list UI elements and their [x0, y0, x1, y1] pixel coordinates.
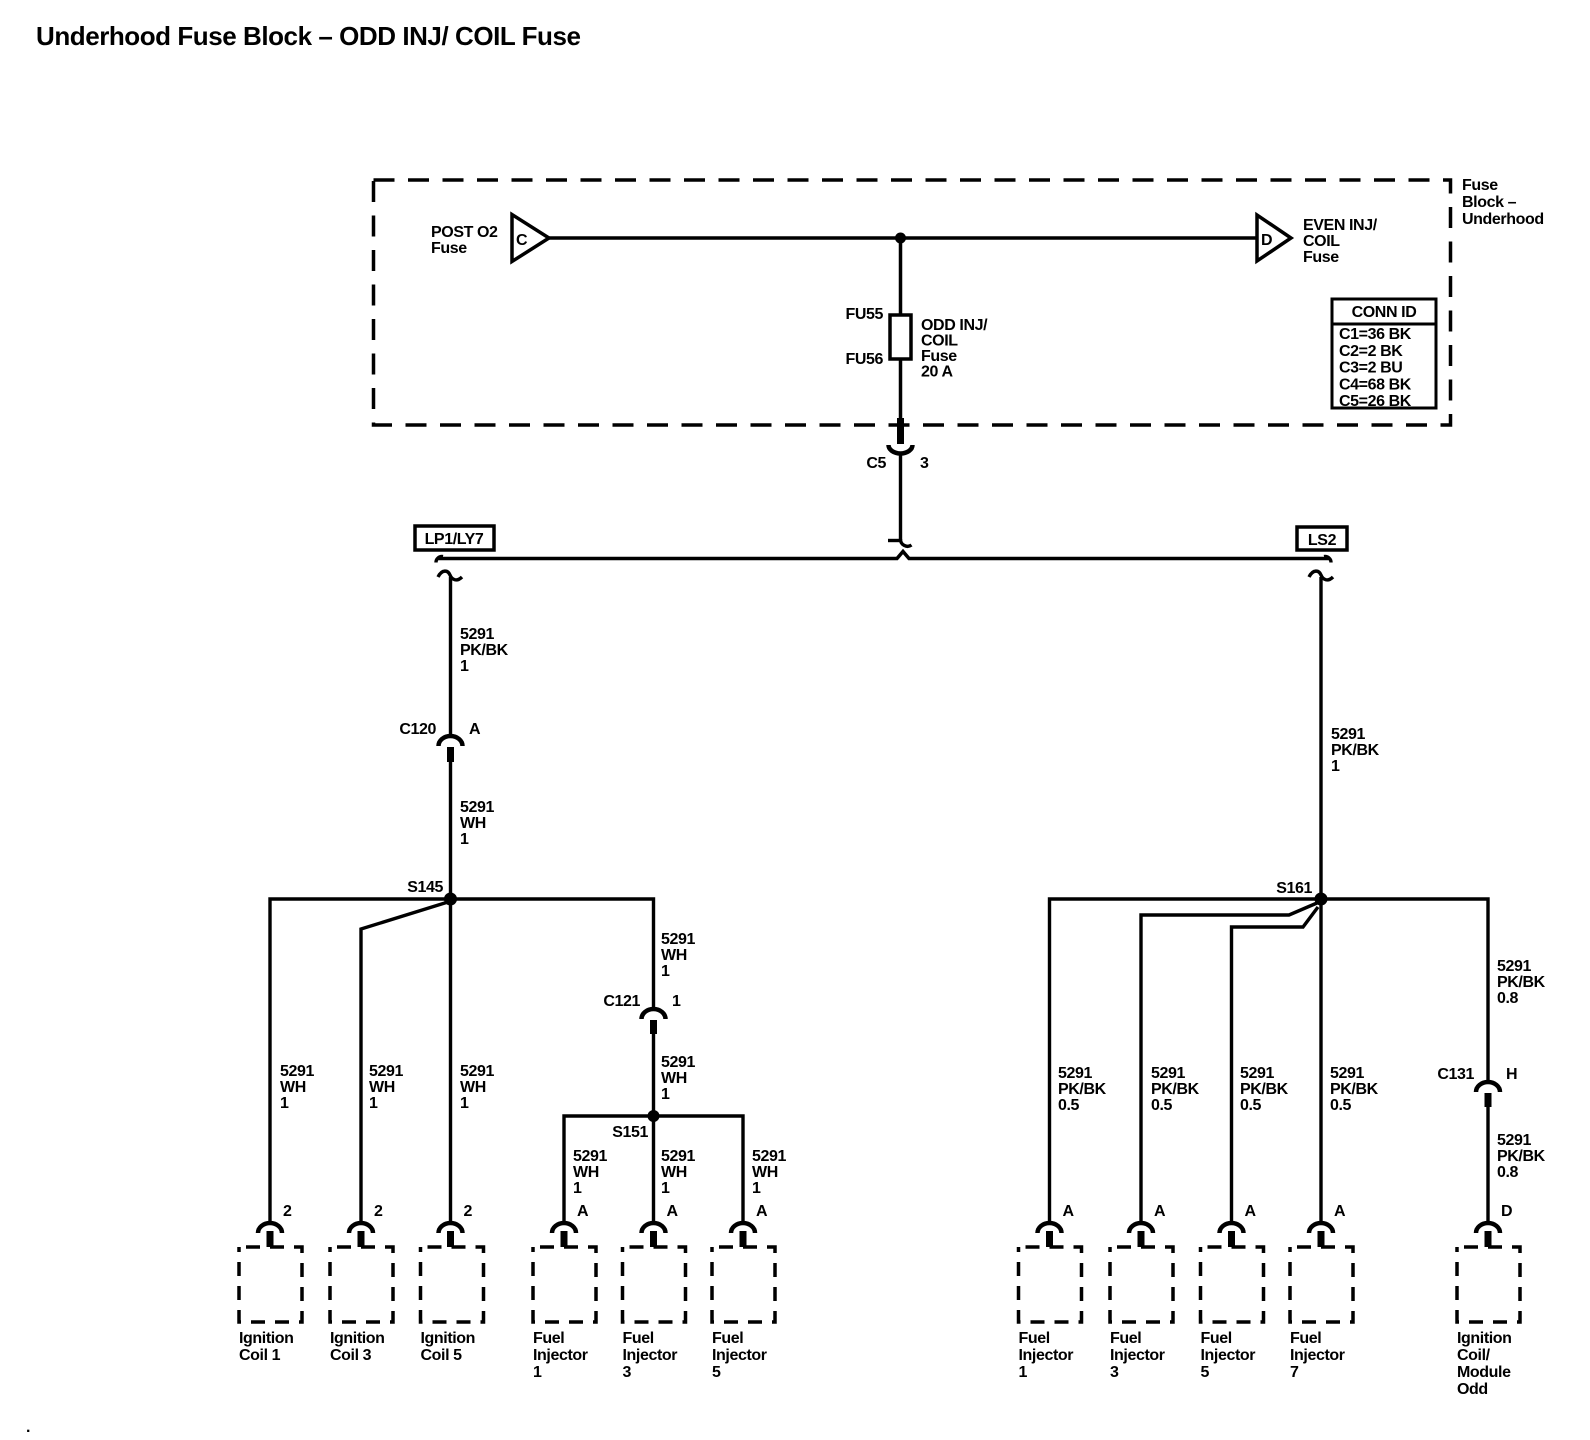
wire S161 to fuel injector 7: [1319, 899, 1322, 1221]
wire C120 to S145: [449, 762, 452, 893]
svg-text:C121: C121: [603, 993, 640, 1010]
svg-text:A: A: [1154, 1203, 1166, 1220]
connector pin A at fuel injector 3 (left bank): [642, 1203, 679, 1247]
connector triangle C (POST O2 Fuse): [512, 215, 549, 262]
wire S161 to fuel injector 3: [1141, 903, 1317, 1221]
connector C5 pin 3: [866, 418, 929, 472]
connector pin A at fuel injector 7: [1309, 1203, 1346, 1247]
wire LP1/LY7 branch to C120: [438, 571, 462, 734]
svg-text:2: 2: [374, 1203, 383, 1220]
connector pin A at fuel injector 3: [1129, 1203, 1166, 1247]
component box fuel injector 1: [1019, 1247, 1082, 1322]
svg-text:C: C: [516, 232, 528, 249]
wire S145 to C121: [451, 899, 654, 1007]
splice S151: [612, 1110, 659, 1141]
component box fuel injector 5: [1201, 1247, 1264, 1322]
svg-text:Underhood Fuse Block – ODD INJ: Underhood Fuse Block – ODD INJ/ COIL Fus…: [36, 21, 581, 51]
svg-text:S151: S151: [612, 1124, 648, 1141]
svg-text:LP1/LY7: LP1/LY7: [425, 531, 484, 548]
wire C to D: [549, 236, 1257, 240]
wire S151 to fuel injector 5: [654, 1116, 744, 1221]
svg-text:2: 2: [283, 1203, 292, 1220]
svg-text:CONN ID: CONN ID: [1352, 304, 1417, 321]
svg-text:A: A: [1245, 1203, 1257, 1220]
wire S151 to fuel injector 3: [652, 1116, 655, 1221]
component box ignition coil 1: [239, 1247, 302, 1322]
connector pin A at fuel injector 1 (left bank): [552, 1203, 589, 1247]
node LP1/LY7: [415, 526, 494, 550]
connector pin 2 at ignition coil 3: [349, 1203, 383, 1247]
component box fuel injector 1 (left bank): [533, 1247, 596, 1322]
component box ignition coil 5: [421, 1247, 484, 1322]
svg-text:D: D: [1501, 1203, 1512, 1220]
wire C5 to bus: [888, 452, 912, 546]
svg-text:C131: C131: [1437, 1066, 1474, 1083]
bus right hook: [1324, 556, 1331, 562]
svg-text:C5: C5: [866, 455, 886, 472]
svg-text:A: A: [667, 1203, 679, 1220]
bus wire LP1/LY7 to LS2 with splice bump: [437, 552, 1330, 559]
svg-text:S145: S145: [407, 879, 443, 896]
connector pin A at fuel injector 5 (left bank): [731, 1203, 768, 1247]
wire S145 to ignition coil 5: [449, 899, 452, 1221]
connector C121 pin 1: [603, 993, 681, 1034]
connector pin 2 at ignition coil 5: [439, 1203, 473, 1247]
svg-text:A: A: [756, 1203, 768, 1220]
svg-text:H: H: [1506, 1066, 1517, 1083]
bus left hook: [436, 556, 443, 562]
svg-text:1: 1: [672, 993, 681, 1010]
svg-text:A: A: [1334, 1203, 1346, 1220]
splice S145: [407, 879, 457, 906]
svg-text:3: 3: [920, 455, 929, 472]
connector pin A at fuel injector 1: [1038, 1203, 1075, 1247]
wire S145 to ignition coil 3: [361, 902, 448, 1221]
fuse ODD INJ/COIL Fuse 20 A: [890, 315, 911, 359]
wire S145 to ignition coil 1: [270, 899, 450, 1221]
component box fuel injector 3 (left bank): [623, 1247, 686, 1322]
svg-text:LS2: LS2: [1308, 532, 1337, 549]
connector pin D at ignition coil/module odd: [1476, 1203, 1512, 1247]
connector C120 pin A: [399, 721, 481, 762]
connector C131 pin H: [1437, 1066, 1517, 1107]
component box ignition coil/module odd: [1457, 1247, 1520, 1322]
fuse block dashed border: [374, 180, 1451, 425]
wire LS2 branch to S161: [1309, 571, 1333, 893]
svg-text:C120: C120: [399, 721, 436, 738]
svg-text:C1=36 BKC2=2 BKC3=2 BUC4=68 BK: C1=36 BKC2=2 BKC3=2 BUC4=68 BKC5=26 BK: [1339, 326, 1412, 410]
CONN ID table: [1332, 299, 1436, 410]
splice S161: [1276, 880, 1327, 906]
wire C121 to S151: [652, 1034, 655, 1112]
svg-text:S161: S161: [1276, 880, 1312, 897]
wire C131 to ignition coil module: [1486, 1107, 1489, 1221]
wire junction to fuse: [899, 238, 903, 315]
wire S151 to fuel injector 1: [564, 1116, 654, 1221]
component box fuel injector 3: [1110, 1247, 1173, 1322]
wire S161 to fuel injector 1: [1050, 899, 1322, 1221]
component box ignition coil 3: [330, 1247, 393, 1322]
svg-text:2: 2: [464, 1203, 473, 1220]
connector triangle D (EVEN INJ/COIL Fuse): [1257, 215, 1291, 261]
connector pin 2 at ignition coil 1: [258, 1203, 292, 1247]
junction dot: [895, 233, 906, 244]
wire S161 to fuel injector 5: [1232, 907, 1319, 1221]
svg-text:D: D: [1261, 232, 1272, 249]
svg-text:.: .: [26, 1419, 30, 1436]
svg-text:FU56: FU56: [845, 351, 883, 368]
svg-text:A: A: [469, 721, 481, 738]
component box fuel injector 7: [1290, 1247, 1353, 1322]
connector pin A at fuel injector 5: [1220, 1203, 1257, 1247]
wire S161 to C131: [1321, 899, 1488, 1080]
component box fuel injector 5 (left bank): [712, 1247, 775, 1322]
node LS2: [1297, 527, 1347, 550]
svg-text:A: A: [577, 1203, 589, 1220]
svg-text:FU55: FU55: [845, 306, 883, 323]
wire fuse to border: [899, 359, 903, 420]
svg-text:A: A: [1063, 1203, 1075, 1220]
